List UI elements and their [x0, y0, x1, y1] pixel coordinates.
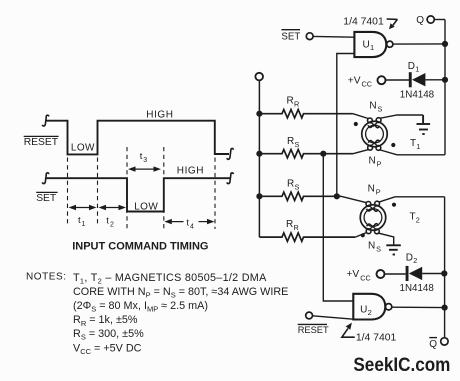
break squiggle left end of SET trace [42, 173, 49, 184]
label 1/4 7401 (U2) [356, 332, 397, 343]
svg-text:NOTES:: NOTES: [26, 271, 67, 282]
label Qbar (overlined) [429, 338, 437, 350]
resistor RR (upper) [259, 110, 353, 118]
svg-text:N: N [369, 100, 376, 111]
svg-text:RS = 300, ±5%: RS = 300, ±5% [73, 328, 144, 342]
junction RS lower / cross-coupling wire [334, 193, 340, 199]
wire cross-coupling to U1 lower input [337, 54, 355, 197]
diode D2 1N4148 [406, 266, 423, 281]
svg-text:1/4 7401: 1/4 7401 [343, 16, 384, 27]
ground (T2) [386, 245, 401, 254]
break squiggle right end of SET trace [227, 173, 234, 184]
terminal (left bus input) [255, 73, 263, 81]
wire left bus [258, 80, 260, 237]
transformer T2 leads [341, 196, 445, 245]
watermark SeekIC.com [353, 355, 450, 376]
junction RS upper / cross-coupling wire [320, 151, 326, 157]
t2 dimension arrow [99, 205, 127, 210]
arrow from label to U1 bubble [387, 19, 398, 29]
label RR (lower) [286, 219, 299, 232]
wire U1 output to bus [393, 43, 445, 45]
transformer T1 toroid core [362, 121, 388, 147]
svg-text:S: S [376, 244, 381, 253]
label SET (overlined) [36, 192, 57, 204]
label 1/4 7401 (U1) [343, 16, 384, 27]
terminal SET [306, 33, 313, 40]
t4 dimension arrow [164, 219, 214, 224]
label +Vcc (lower) [346, 269, 370, 282]
svg-text:2: 2 [416, 216, 420, 225]
break squiggle left end of RESET trace [42, 115, 49, 126]
gate U2 (NAND 1/4 7401) [353, 294, 385, 320]
label 1N4148 (D2) [400, 283, 435, 294]
ground (T1) [417, 115, 431, 134]
T2 winding turns [366, 201, 380, 234]
svg-text:CORE WITH NP = NS = 80T, ≈34 A: CORE WITH NP = NS = 80T, ≈34 AWG WIRE [73, 286, 288, 300]
label U1 [363, 40, 375, 52]
T1 winding turns [368, 118, 382, 151]
label t3 [140, 151, 148, 164]
t3 dimension arrow [128, 166, 161, 171]
wire right bus (top segment) [444, 20, 446, 155]
label t2 [106, 216, 114, 229]
dashed timing line d2 [97, 158, 99, 226]
svg-text:+V: +V [348, 75, 361, 86]
label HIGH (SET) [177, 166, 204, 177]
svg-text:(2ΦS = 80 Mx, IMP ≈ 2.5 mA): (2ΦS = 80 Mx, IMP ≈ 2.5 mA) [73, 300, 208, 314]
svg-text:SET: SET [36, 193, 57, 204]
junction U2 output / bus [442, 305, 448, 311]
svg-text:T1, T2 – MAGNETICS 80505–1/2 D: T1, T2 – MAGNETICS 80505–1/2 DMA [73, 272, 267, 286]
wire +Vcc to D2 [385, 273, 406, 275]
wire Q terminal to bus [434, 19, 445, 21]
wire RESET to U2 input [313, 316, 354, 319]
junction left bus / RR upper [256, 111, 262, 117]
svg-text:t: t [106, 216, 109, 227]
svg-text:1: 1 [415, 65, 419, 74]
svg-text:R: R [287, 179, 294, 190]
svg-text:CC: CC [360, 273, 371, 282]
svg-text:LOW: LOW [134, 201, 158, 212]
svg-text:RESET: RESET [24, 137, 59, 148]
svg-text:HIGH: HIGH [177, 166, 204, 177]
svg-text:2: 2 [110, 222, 114, 229]
svg-text:U: U [363, 40, 370, 51]
terminal Qbar [441, 338, 448, 345]
label U2 [360, 304, 372, 316]
label LOW (SET) [134, 201, 158, 212]
label LOW (RESET) [71, 143, 95, 154]
svg-text:2: 2 [368, 308, 372, 317]
svg-text:CC: CC [362, 80, 373, 89]
label T2 [410, 212, 420, 225]
T1 polarity dot (left) [354, 122, 358, 126]
svg-text:HIGH: HIGH [146, 109, 173, 120]
diode D1 1N4148 [409, 72, 426, 87]
wire right bus (bottom segment) [444, 197, 446, 338]
break squiggle right end of RESET trace [227, 148, 234, 159]
svg-text:T: T [410, 212, 416, 223]
label 1N4148 (D1) [400, 90, 435, 101]
T2 polarity dot (bottom left) [361, 233, 365, 237]
label NP (T1) [369, 156, 382, 169]
dashed timing line d5 [214, 158, 216, 230]
terminal RESET [306, 312, 313, 319]
label SET (overlined) at gate input [281, 30, 300, 43]
svg-text:1: 1 [370, 43, 374, 52]
arrow to U2 [342, 323, 355, 338]
dashed timing line d3 [126, 147, 128, 229]
svg-text:3: 3 [143, 157, 147, 164]
junction left bus / RS lower [256, 193, 262, 199]
label D2 [406, 252, 417, 265]
label t1 [78, 215, 86, 228]
label D1 [408, 61, 419, 74]
terminal +Vcc (lower) [377, 270, 385, 278]
svg-text:D: D [406, 252, 413, 263]
svg-text:N: N [368, 240, 375, 251]
label RS (lower) [287, 179, 300, 192]
svg-text:RR = 1k, ±5%: RR = 1k, ±5% [73, 314, 138, 328]
RESET waveform trace [46, 121, 229, 155]
svg-text:INPUT COMMAND TIMING: INPUT COMMAND TIMING [72, 241, 208, 253]
svg-text:t: t [140, 151, 143, 162]
svg-text:S: S [295, 140, 300, 149]
svg-text:R: R [287, 136, 294, 147]
junction U1 output / bus [442, 41, 448, 47]
svg-text:SET: SET [281, 32, 300, 43]
dashed timing line d4 [163, 147, 165, 230]
label RESET (overlined) at gate [298, 324, 329, 335]
label +Vcc (upper) [348, 75, 372, 88]
resistor RS (lower) [259, 192, 341, 200]
svg-text:1N4148: 1N4148 [400, 90, 435, 101]
svg-text:SeekIC.com: SeekIC.com [353, 355, 450, 376]
terminal Q [427, 16, 434, 23]
wire D1 to bus [425, 79, 445, 81]
label Q [416, 15, 424, 26]
svg-text:Q: Q [429, 339, 437, 350]
svg-text:S: S [295, 183, 300, 192]
svg-text:RESET: RESET [298, 325, 329, 335]
svg-text:1N4148: 1N4148 [400, 283, 435, 294]
svg-text:N: N [369, 156, 376, 167]
svg-text:R: R [294, 223, 299, 232]
label T1 [410, 138, 420, 151]
svg-text:+V: +V [346, 269, 359, 280]
svg-text:P: P [377, 160, 382, 169]
label HIGH (RESET) [146, 109, 173, 120]
wire cross-coupling to U2 upper input [323, 154, 353, 301]
label NS (T2) [368, 240, 381, 253]
svg-text:1: 1 [416, 142, 420, 151]
junction D1 / bus [442, 77, 448, 83]
svg-text:S: S [378, 104, 383, 113]
gate U1 (NAND 1/4 7401) [354, 32, 386, 57]
label t4 [186, 217, 194, 230]
label RR (upper) [287, 96, 300, 109]
svg-text:Q: Q [416, 15, 424, 26]
output bubble U2 [385, 304, 391, 310]
junction left bus / RS upper [256, 151, 262, 157]
wire U2 output to bus [392, 306, 445, 308]
label RESET (overlined) [24, 136, 59, 148]
svg-text:t: t [186, 217, 189, 228]
label NP (T2) [368, 184, 381, 197]
svg-text:1/4 7401: 1/4 7401 [356, 332, 397, 343]
svg-text:P: P [376, 188, 381, 197]
terminal +Vcc (upper) [378, 76, 386, 84]
label NS (T1) [369, 100, 382, 113]
svg-text:2: 2 [413, 256, 417, 265]
t1 dimension arrow [69, 205, 97, 210]
svg-text:R: R [286, 219, 293, 230]
svg-text:N: N [368, 184, 375, 195]
svg-text:R: R [287, 96, 294, 107]
dashed timing line d1 [67, 158, 69, 226]
resistor RR (lower) [259, 233, 355, 241]
transformer T2 toroid core [360, 205, 386, 231]
svg-text:U: U [360, 304, 367, 315]
resistor RS (upper) [259, 150, 353, 158]
svg-text:R: R [294, 100, 299, 109]
caption INPUT COMMAND TIMING [72, 241, 208, 253]
T1 polarity dot (right) [391, 143, 395, 147]
SET waveform trace [46, 178, 230, 211]
svg-text:LOW: LOW [71, 143, 95, 154]
svg-text:VCC = +5V DC: VCC = +5V DC [73, 342, 142, 356]
svg-text:T: T [410, 138, 416, 149]
svg-text:4: 4 [190, 223, 194, 230]
svg-text:1: 1 [82, 221, 86, 228]
junction D2 / bus [441, 270, 447, 276]
T2 polarity dot (top right) [392, 203, 396, 207]
wire D2 to bus [422, 273, 444, 275]
wire +Vcc to D1 [386, 79, 410, 81]
notes text [26, 271, 288, 356]
svg-text:D: D [408, 61, 415, 72]
output bubble U1 [387, 41, 393, 47]
label RS (upper) [287, 136, 300, 149]
wire SET to U1 input [313, 35, 354, 38]
transformer T1 leads [353, 114, 445, 155]
